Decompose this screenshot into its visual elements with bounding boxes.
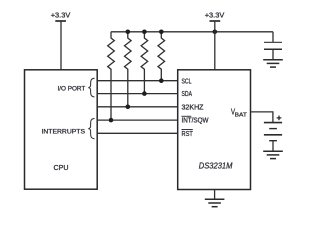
capacitor C1 top plate xyxy=(264,41,282,43)
I/O PORT brace xyxy=(88,78,94,97)
svg-text:BAT: BAT xyxy=(235,113,248,119)
wire capacitor to ground xyxy=(272,49,274,60)
svg-text:+3.3V: +3.3V xyxy=(51,12,71,19)
resistor R2 xyxy=(125,32,132,107)
I/O PORT label xyxy=(58,86,86,93)
pin label INT/SQW xyxy=(182,116,209,124)
pin label 32KHZ xyxy=(182,103,205,111)
ground capacitor xyxy=(263,60,283,67)
wire right supply to DS3231M VCC xyxy=(214,21,216,70)
power +3.3V right bar xyxy=(210,20,221,22)
ground battery xyxy=(263,151,283,158)
svg-text:CPU: CPU xyxy=(54,163,69,172)
battery plus sign xyxy=(277,116,282,121)
pull-up rail wire xyxy=(111,31,273,33)
power +3.3V right label xyxy=(205,12,225,19)
INTERRUPTS brace xyxy=(88,118,94,138)
resistor R1 xyxy=(108,32,115,120)
battery BT1 xyxy=(264,123,282,141)
CPU label xyxy=(54,163,69,172)
capacitor C1 bottom plate xyxy=(264,48,282,50)
svg-text:SDA: SDA xyxy=(182,90,193,98)
svg-text:32KHZ: 32KHZ xyxy=(182,103,205,111)
junction R3 SDA xyxy=(142,91,147,96)
power +3.3V left label xyxy=(51,12,71,19)
ground DS3231M xyxy=(205,199,225,206)
wire VBAT pin to battery xyxy=(251,112,273,123)
DS3231M box U1 xyxy=(178,70,251,190)
junction R3 rail xyxy=(142,30,147,35)
junction supply rail xyxy=(213,30,218,35)
resistor R4 xyxy=(158,32,165,81)
pin label VBAT xyxy=(231,107,247,119)
svg-text:SCL: SCL xyxy=(182,77,192,85)
wire 32KHZ xyxy=(97,106,178,108)
wire RST xyxy=(97,132,178,134)
wire INT/SQW xyxy=(97,119,178,121)
wire SCL xyxy=(97,80,178,82)
part label DS3231M xyxy=(199,160,233,170)
CPU box U2 xyxy=(25,70,98,189)
junction R4 rail xyxy=(159,30,164,35)
resistor R3 xyxy=(141,32,148,94)
power +3.3V left bar xyxy=(55,20,66,22)
svg-text:+3.3V: +3.3V xyxy=(205,12,225,19)
svg-text:RST: RST xyxy=(182,130,194,138)
junction R2 32KHZ xyxy=(126,105,131,110)
pin label RST xyxy=(182,130,194,138)
pin label SCL xyxy=(182,77,192,85)
wire battery to ground xyxy=(272,141,274,152)
junction R1 INT/SQW xyxy=(109,118,114,123)
wire SDA xyxy=(97,93,178,95)
INTERRUPTS label xyxy=(42,128,86,135)
svg-text:INT/SQW: INT/SQW xyxy=(182,117,209,125)
wire left supply to CPU xyxy=(60,21,62,70)
wire DS3231M GND xyxy=(214,190,216,200)
junction R2 rail xyxy=(126,30,131,35)
svg-text:DS3231M: DS3231M xyxy=(199,160,233,170)
pin label SDA xyxy=(182,90,193,98)
svg-text:INTERRUPTS: INTERRUPTS xyxy=(42,128,86,135)
wire rail to capacitor xyxy=(272,32,274,42)
svg-text:I/O PORT: I/O PORT xyxy=(58,86,86,93)
junction R4 SCL xyxy=(159,78,164,83)
